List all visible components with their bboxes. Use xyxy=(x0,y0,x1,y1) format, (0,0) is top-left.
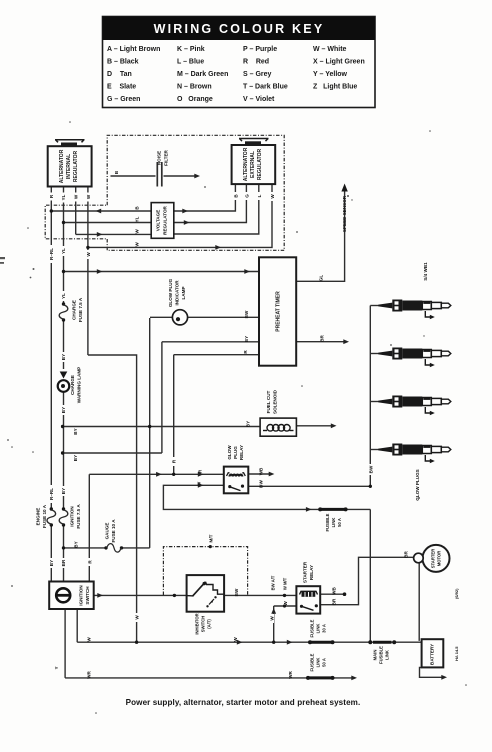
svg-text:S – Grey: S – Grey xyxy=(243,71,272,78)
svg-text:YL: YL xyxy=(61,194,66,200)
svg-text:WB: WB xyxy=(259,467,264,475)
svg-text:M – Dark Green: M – Dark Green xyxy=(177,71,228,78)
svg-text:BW: BW xyxy=(244,310,249,318)
svg-text:N – Brown: N – Brown xyxy=(177,84,212,91)
svg-text:ALTERNATOR: ALTERNATOR xyxy=(59,149,65,183)
svg-text:W M/T: W M/T xyxy=(283,577,288,590)
svg-text:BATTERY: BATTERY xyxy=(430,644,435,665)
svg-text:YL: YL xyxy=(61,293,66,299)
svg-text:X – Light Green: X – Light Green xyxy=(313,59,365,66)
svg-text:BY: BY xyxy=(61,407,66,413)
svg-text:RELAY: RELAY xyxy=(239,445,244,460)
svg-text:IGNITION: IGNITION xyxy=(70,506,75,527)
svg-text:LINK: LINK xyxy=(331,518,336,528)
svg-text:GAUGE: GAUGE xyxy=(105,523,110,540)
svg-text:BY: BY xyxy=(73,428,78,434)
svg-text:ENGINE: ENGINE xyxy=(36,508,41,526)
svg-text:W: W xyxy=(233,637,238,642)
svg-text:STARTER: STARTER xyxy=(431,549,436,568)
svg-text:REGULATOR: REGULATOR xyxy=(163,205,168,234)
svg-text:FUSIBLE: FUSIBLE xyxy=(310,653,315,671)
svg-text:GLOW PLUGS: GLOW PLUGS xyxy=(415,469,420,500)
svg-text:R–RL: R–RL xyxy=(49,488,54,500)
svg-text:BY: BY xyxy=(246,421,251,427)
svg-text:YL: YL xyxy=(135,216,140,222)
svg-text:W – White: W – White xyxy=(313,46,347,53)
svg-text:L – Blue: L – Blue xyxy=(177,59,204,66)
svg-text:MOTOR: MOTOR xyxy=(437,551,442,567)
svg-text:S/4 WB1: S/4 WB1 xyxy=(423,262,428,281)
svg-text:SOLENOID: SOLENOID xyxy=(273,389,278,414)
svg-text:A – Light Brown: A – Light Brown xyxy=(107,46,160,53)
svg-text:WARNING LAMP: WARNING LAMP xyxy=(77,367,82,404)
svg-text:LINK: LINK xyxy=(316,624,321,634)
svg-text:Y – Yellow: Y – Yellow xyxy=(313,71,348,78)
svg-text:MAIN: MAIN xyxy=(373,650,378,661)
svg-text:R: R xyxy=(198,469,203,473)
svg-text:G – Green: G – Green xyxy=(107,96,140,103)
svg-text:BY: BY xyxy=(73,455,78,461)
svg-text:FUSE 10 A: FUSE 10 A xyxy=(111,519,116,543)
svg-text:W: W xyxy=(87,637,92,642)
svg-text:B: B xyxy=(135,206,140,210)
svg-text:BR: BR xyxy=(404,551,409,558)
svg-text:BR: BR xyxy=(320,335,325,342)
svg-text:D Tan: D Tan xyxy=(107,71,132,78)
svg-text:FUSIBLE: FUSIBLE xyxy=(379,646,384,664)
svg-text:W: W xyxy=(197,481,202,486)
svg-text:CHARGE: CHARGE xyxy=(72,300,77,320)
svg-text:GL: GL xyxy=(319,275,324,282)
svg-text:FUEL CUT: FUEL CUT xyxy=(266,390,271,413)
svg-text:P – Purple: P – Purple xyxy=(243,46,277,53)
svg-text:Y: Y xyxy=(54,666,59,669)
svg-text:BY: BY xyxy=(61,354,66,360)
svg-text:R–RL: R–RL xyxy=(49,248,54,260)
svg-text:BW: BW xyxy=(259,480,264,488)
svg-text:WIRING COLOUR KEY: WIRING COLOUR KEY xyxy=(154,22,325,36)
svg-text:BW: BW xyxy=(234,588,239,596)
svg-text:RELAY: RELAY xyxy=(309,565,314,580)
svg-text:STARTER: STARTER xyxy=(303,561,308,583)
svg-text:BY: BY xyxy=(49,560,54,566)
svg-text:FUSIBLE: FUSIBLE xyxy=(325,513,330,531)
svg-text:SWITCH: SWITCH xyxy=(201,616,206,633)
svg-text:W: W xyxy=(86,252,91,257)
svg-text:ALTERNATOR: ALTERNATOR xyxy=(243,147,249,181)
svg-text:K – Pink: K – Pink xyxy=(177,46,205,53)
svg-text:Power supply, alternator, star: Power supply, alternator, starter motor … xyxy=(126,698,361,707)
svg-text:FUSE 10 A: FUSE 10 A xyxy=(42,504,47,528)
svg-text:T – Dark Blue: T – Dark Blue xyxy=(243,84,288,91)
svg-text:VOLTAGE: VOLTAGE xyxy=(156,210,161,232)
svg-text:FUSIBLE: FUSIBLE xyxy=(310,619,315,637)
svg-text:EXTERNAL: EXTERNAL xyxy=(250,151,256,178)
svg-text:E Slate: E Slate xyxy=(107,84,136,91)
svg-text:BY: BY xyxy=(244,336,249,342)
svg-text:B: B xyxy=(114,170,119,174)
svg-text:BY: BY xyxy=(74,541,79,547)
svg-text:GLOW PLUG: GLOW PLUG xyxy=(168,278,173,307)
svg-text:Z Light Blue: Z Light Blue xyxy=(313,84,357,91)
svg-text:(6/92): (6/92) xyxy=(454,588,459,599)
svg-text:PREHEAT TIMER: PREHEAT TIMER xyxy=(276,291,282,332)
svg-text:BR: BR xyxy=(61,559,66,566)
svg-text:O Orange: O Orange xyxy=(177,96,213,103)
svg-text:W: W xyxy=(270,194,275,199)
svg-text:BY: BY xyxy=(61,488,66,494)
svg-text:HA 14.5: HA 14.5 xyxy=(454,646,459,661)
svg-text:FILTER: FILTER xyxy=(164,149,169,165)
svg-text:WB: WB xyxy=(332,586,337,594)
svg-text:L: L xyxy=(257,194,262,197)
svg-text:R: R xyxy=(243,350,248,354)
svg-text:SWITCH: SWITCH xyxy=(85,586,90,605)
svg-text:FUSE 7.5 A: FUSE 7.5 A xyxy=(78,297,83,322)
svg-text:(A/T): (A/T) xyxy=(207,619,212,629)
svg-text:W: W xyxy=(135,229,140,234)
svg-text:INHIBITOR: INHIBITOR xyxy=(195,613,200,634)
svg-text:50 A: 50 A xyxy=(337,518,342,527)
svg-text:LINK: LINK xyxy=(385,650,390,660)
svg-text:IGNITION: IGNITION xyxy=(79,585,84,606)
svg-text:REGULATOR: REGULATOR xyxy=(73,151,79,183)
svg-text:M/T: M/T xyxy=(209,534,214,542)
svg-text:YL: YL xyxy=(61,248,66,254)
svg-text:30 A: 30 A xyxy=(322,624,327,633)
svg-text:GLOW: GLOW xyxy=(227,445,232,460)
svg-text:LAMP: LAMP xyxy=(181,286,186,299)
svg-text:V – Violet: V – Violet xyxy=(243,96,275,103)
svg-text:WR: WR xyxy=(87,670,92,678)
svg-text:W: W xyxy=(86,194,91,199)
svg-text:NOISE: NOISE xyxy=(157,151,162,165)
svg-text:INDICATOR: INDICATOR xyxy=(175,280,180,306)
svg-text:WR: WR xyxy=(288,670,293,678)
svg-text:W: W xyxy=(135,615,140,620)
svg-text:BR: BR xyxy=(332,598,337,605)
svg-text:R Red: R Red xyxy=(243,59,269,66)
svg-text:G: G xyxy=(245,194,250,198)
svg-text:W: W xyxy=(269,616,274,621)
svg-text:SPEED SENSOR: SPEED SENSOR xyxy=(342,195,347,232)
svg-text:50 A: 50 A xyxy=(322,658,327,667)
svg-text:FUSE 7.5 A: FUSE 7.5 A xyxy=(76,504,81,529)
svg-text:INTERNAL: INTERNAL xyxy=(66,154,72,179)
svg-text:W: W xyxy=(283,601,288,606)
svg-text:B – Black: B – Black xyxy=(107,59,139,66)
svg-text:BW: BW xyxy=(368,465,373,473)
svg-text:CHARGE: CHARGE xyxy=(70,375,75,395)
svg-text:BW A/T: BW A/T xyxy=(271,575,276,590)
svg-text:LINK: LINK xyxy=(316,658,321,668)
svg-text:W: W xyxy=(74,194,79,199)
svg-text:W: W xyxy=(135,242,140,247)
svg-text:PLUG: PLUG xyxy=(233,446,238,459)
svg-text:REGULATOR: REGULATOR xyxy=(257,149,263,181)
